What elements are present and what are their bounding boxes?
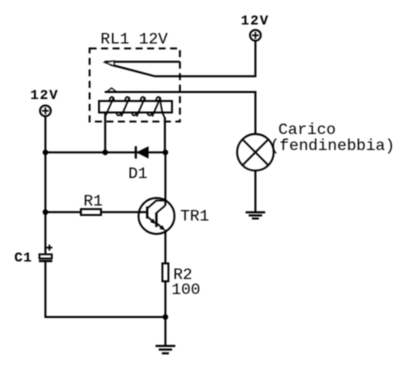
svg-text:RL1 12V: RL1 12V: [101, 30, 169, 48]
svg-text:C1: C1: [14, 251, 32, 267]
svg-text:R1: R1: [84, 193, 103, 211]
svg-text:D1: D1: [128, 165, 147, 183]
svg-text:(fendinebbia): (fendinebbia): [270, 137, 395, 155]
svg-text:TR1: TR1: [180, 208, 209, 226]
svg-text:100: 100: [172, 281, 201, 299]
svg-text:12V: 12V: [241, 13, 270, 29]
svg-text:Carico: Carico: [278, 121, 336, 139]
svg-text:12V: 12V: [30, 88, 59, 104]
